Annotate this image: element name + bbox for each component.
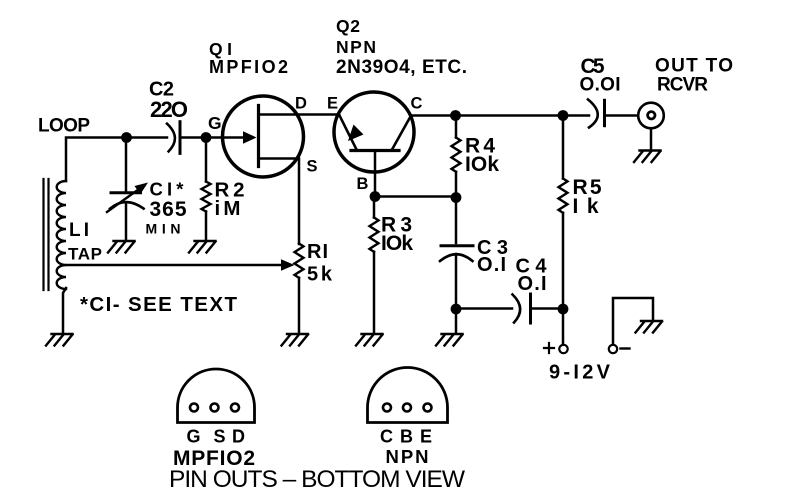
svg-text:D: D xyxy=(232,427,245,447)
jack OUT xyxy=(638,103,664,129)
wire R2 top xyxy=(205,141,208,182)
wire R4 top xyxy=(455,116,458,138)
package MPF102 outline xyxy=(178,369,255,423)
svg-text:E: E xyxy=(420,427,432,447)
svg-text:22O: 22O xyxy=(150,97,188,122)
wire R4 bottom xyxy=(455,172,458,198)
wire R1 bottom xyxy=(298,278,301,334)
terminal - circle xyxy=(609,345,617,353)
wire base to R4 node xyxy=(375,195,456,198)
svg-text:QI: QI xyxy=(209,39,232,59)
svg-text:TAP: TAP xyxy=(68,245,102,264)
wire R3 top xyxy=(373,197,376,218)
svg-text:MIN: MIN xyxy=(146,221,181,237)
svg-text:OUT TO: OUT TO xyxy=(655,56,733,77)
wire tap to R1 wiper xyxy=(66,264,282,267)
wire C3 bottom xyxy=(455,254,458,309)
ground C1 xyxy=(108,241,135,253)
svg-text:5k: 5k xyxy=(307,264,333,286)
svg-text:LI: LI xyxy=(69,220,89,241)
wire to + terminal xyxy=(562,309,565,345)
node C3/C4 junction xyxy=(451,304,462,315)
svg-text:NPN: NPN xyxy=(336,37,376,57)
svg-text:*CI- SEE TEXT: *CI- SEE TEXT xyxy=(80,293,237,316)
resistor R4 xyxy=(452,138,461,172)
wire Q2 collector to C5 xyxy=(412,114,589,117)
pin C xyxy=(383,404,391,412)
wire jack to ground xyxy=(650,129,653,151)
ground R1 xyxy=(282,334,309,346)
svg-text:E: E xyxy=(327,95,338,113)
node junction loop/C1 xyxy=(121,132,132,143)
wire L1 bottom xyxy=(63,288,66,334)
capacitor C4 xyxy=(513,294,531,323)
wire C1 bottom xyxy=(125,204,128,240)
resistor R3 xyxy=(370,218,379,252)
svg-text:NPN: NPN xyxy=(386,446,429,467)
terminal + circle xyxy=(559,345,567,353)
wire Q2 base down xyxy=(374,151,377,197)
JFET Q1 xyxy=(223,96,304,177)
L1 core lines xyxy=(44,179,49,290)
resistor R5 xyxy=(559,179,568,213)
wire Q1 drain to Q2 emitter xyxy=(259,113,340,116)
node R5 top junction xyxy=(558,110,569,121)
wire to ground xyxy=(455,309,458,334)
svg-text:MPFIO2: MPFIO2 xyxy=(209,57,288,77)
wire gate into Q1 xyxy=(206,136,245,139)
ground jack xyxy=(634,151,661,163)
pin S xyxy=(211,404,219,412)
capacitor C3 xyxy=(440,246,473,261)
wire C2 to gate xyxy=(182,136,207,139)
ground C3 xyxy=(436,334,463,346)
svg-text:365: 365 xyxy=(150,198,187,221)
ground R3 xyxy=(356,334,383,346)
svg-text:S: S xyxy=(307,158,318,176)
wire R2 bottom xyxy=(205,212,208,241)
svg-text:C: C xyxy=(380,427,393,447)
transistor Q2 xyxy=(334,92,414,172)
svg-text:CI*: CI* xyxy=(150,179,185,200)
wire - terminal to ground xyxy=(613,298,653,345)
ground battery xyxy=(636,321,663,333)
svg-text:Q2: Q2 xyxy=(336,16,360,36)
inductor L1 xyxy=(57,181,66,289)
wire R5 bottom xyxy=(562,213,565,309)
ground L1 xyxy=(46,334,73,346)
svg-text:D: D xyxy=(295,95,307,113)
node B junction xyxy=(370,191,381,202)
R1 wiper arrowhead xyxy=(281,259,295,270)
svg-text:B: B xyxy=(357,175,369,193)
wire Q1 source xyxy=(259,159,300,245)
pin B xyxy=(403,404,411,412)
gate arrowhead Q1 xyxy=(243,131,257,143)
package NPN outline xyxy=(368,368,448,423)
svg-text:iM: iM xyxy=(215,197,241,220)
svg-text:PIN OUTS – BOTTOM VIEW: PIN OUTS – BOTTOM VIEW xyxy=(169,466,466,493)
svg-text:B: B xyxy=(400,427,413,447)
label + xyxy=(544,343,554,353)
svg-text:C: C xyxy=(411,95,423,113)
wire C4 to R5 node xyxy=(532,307,563,310)
svg-text:O.OI: O.OI xyxy=(580,75,621,96)
wire C5 to jack xyxy=(606,114,638,117)
svg-text:2N39O4, ETC.: 2N39O4, ETC. xyxy=(336,57,467,78)
label minus xyxy=(621,347,630,349)
node G junction xyxy=(201,132,212,143)
capacitor C5 xyxy=(588,100,605,128)
svg-text:LOOP: LOOP xyxy=(38,116,90,137)
svg-text:G: G xyxy=(187,427,201,447)
node R4/C3 junction xyxy=(451,192,462,203)
Q2 emitter arrowhead xyxy=(348,125,364,142)
capacitor C2 xyxy=(167,122,180,154)
svg-text:G: G xyxy=(208,113,222,133)
node collector junction xyxy=(450,110,461,121)
node R5/C4/+ junction xyxy=(558,304,569,315)
svg-text:RCVR: RCVR xyxy=(657,75,708,96)
svg-text:9-I2V: 9-I2V xyxy=(549,362,611,384)
capacitor C1 variable xyxy=(107,183,148,213)
svg-text:IOk: IOk xyxy=(465,153,499,176)
wire to C4 xyxy=(456,307,512,310)
svg-text:RI: RI xyxy=(307,241,328,263)
svg-text:S: S xyxy=(214,427,226,447)
ground R2 xyxy=(189,241,216,253)
wire R3 bottom xyxy=(373,252,376,334)
wire C3 top xyxy=(455,198,458,244)
svg-text:IOk: IOk xyxy=(381,232,413,255)
resistor R1 xyxy=(295,244,304,278)
wire LOOP lead xyxy=(66,138,167,182)
pin D xyxy=(231,404,239,412)
wire C1 top xyxy=(125,141,128,191)
pin G xyxy=(190,404,198,412)
svg-text:O.I: O.I xyxy=(477,254,506,276)
resistor R2 xyxy=(202,182,211,212)
pin E xyxy=(424,404,432,412)
wire R5 top xyxy=(562,116,565,179)
svg-text:O.I: O.I xyxy=(518,273,547,295)
